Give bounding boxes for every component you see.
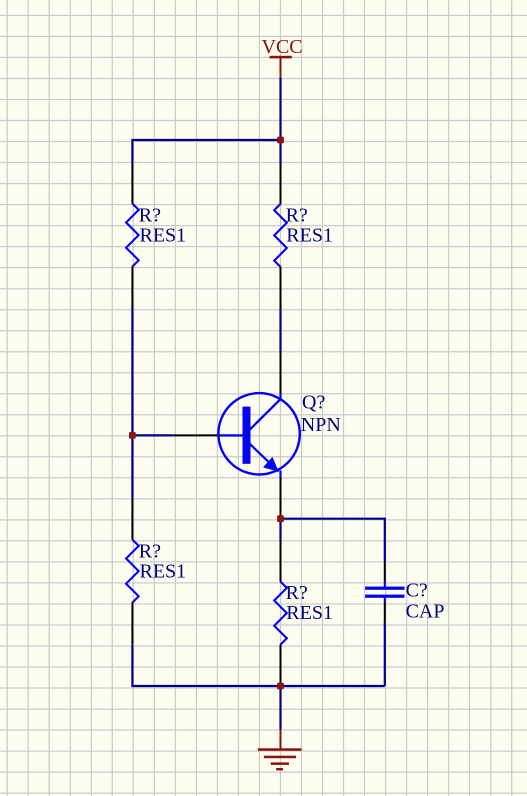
resistor R? RES1 (upper left) xyxy=(126,163,186,308)
transistor Q? NPN xyxy=(172,352,341,519)
wire R2 to Q collector xyxy=(279,309,281,351)
wire ground stem xyxy=(279,686,281,730)
wire R4 top xyxy=(279,519,281,541)
wire top rail xyxy=(132,140,280,163)
resistor R? RES1 (upper right) xyxy=(274,163,333,310)
wire emitter node rail xyxy=(281,519,385,562)
wire VCC to top node xyxy=(279,78,281,140)
svg-text:RES1: RES1 xyxy=(140,224,187,246)
wire R2 top xyxy=(279,140,281,163)
svg-text:R?: R? xyxy=(286,204,308,226)
wire cap bottom xyxy=(384,622,386,686)
svg-text:Q?: Q? xyxy=(302,391,325,413)
node emitter junction xyxy=(277,515,284,522)
svg-text:VCC: VCC xyxy=(262,36,303,58)
svg-text:C?: C? xyxy=(406,580,428,602)
ground symbol xyxy=(258,730,302,771)
capacitor C? CAP xyxy=(365,562,444,623)
svg-text:CAP: CAP xyxy=(406,601,445,623)
svg-text:NPN: NPN xyxy=(301,414,341,436)
power symbol VCC xyxy=(262,36,303,78)
svg-text:R?: R? xyxy=(139,540,161,562)
node top junction xyxy=(277,137,284,144)
svg-text:RES1: RES1 xyxy=(286,224,333,246)
svg-text:R?: R? xyxy=(139,204,161,226)
resistor R? RES1 (lower right) xyxy=(274,541,333,687)
svg-text:RES1: RES1 xyxy=(286,602,333,624)
resistor R? RES1 (lower left) xyxy=(126,498,186,645)
node bottom junction xyxy=(277,683,284,690)
wire base xyxy=(132,434,172,436)
node base junction xyxy=(129,432,136,439)
wire left mid column xyxy=(131,308,133,498)
svg-text:R?: R? xyxy=(286,582,308,604)
wire bottom rail xyxy=(132,645,384,686)
svg-text:RES1: RES1 xyxy=(140,560,187,582)
